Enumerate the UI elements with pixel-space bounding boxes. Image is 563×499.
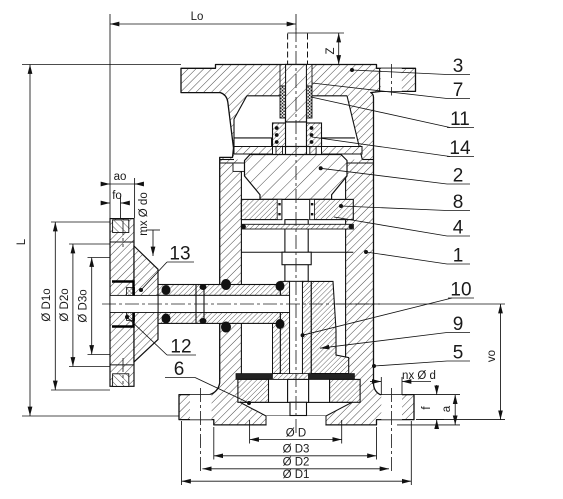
svg-text:a: a: [441, 405, 453, 412]
svg-text:mx Ø do: mx Ø do: [138, 192, 150, 235]
svg-text:Lo: Lo: [191, 11, 204, 23]
svg-text:2: 2: [453, 166, 464, 187]
svg-text:Ø D: Ø D: [286, 428, 306, 440]
svg-text:10: 10: [450, 280, 471, 301]
svg-text:L: L: [16, 238, 28, 245]
svg-text:fo: fo: [112, 190, 122, 202]
svg-text:1: 1: [453, 246, 464, 267]
svg-text:4: 4: [453, 218, 464, 239]
svg-text:ao: ao: [114, 171, 127, 183]
svg-text:7: 7: [453, 80, 464, 101]
svg-text:nx Ø d: nx Ø d: [402, 370, 436, 382]
svg-text:8: 8: [453, 192, 464, 213]
svg-text:5: 5: [453, 343, 464, 364]
svg-text:Ø D2o: Ø D2o: [59, 288, 71, 321]
svg-text:14: 14: [449, 138, 471, 159]
svg-text:3: 3: [453, 56, 464, 77]
svg-text:12: 12: [170, 337, 191, 358]
svg-text:11: 11: [450, 109, 470, 130]
svg-text:vo: vo: [486, 350, 498, 362]
svg-text:6: 6: [174, 359, 185, 380]
svg-text:Ø D2: Ø D2: [283, 457, 310, 469]
svg-text:9: 9: [453, 314, 464, 335]
svg-text:Ø D3: Ø D3: [283, 444, 310, 456]
svg-text:Ø D3o: Ø D3o: [78, 289, 90, 322]
svg-text:Ø D1o: Ø D1o: [41, 288, 53, 321]
svg-text:Z: Z: [325, 47, 337, 54]
svg-text:Ø D1: Ø D1: [283, 469, 310, 481]
svg-text:13: 13: [169, 244, 190, 265]
